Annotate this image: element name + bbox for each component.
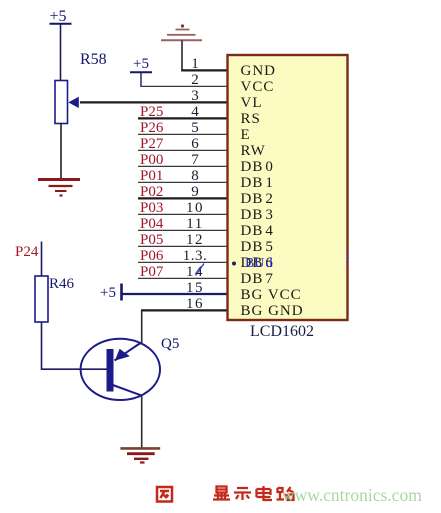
- pin 6 wire RW: [138, 149, 228, 151]
- svg-text:BUd: BUd: [245, 256, 272, 271]
- svg-text:P06: P06: [140, 248, 164, 264]
- pin 2 wire VCC: [140, 85, 227, 87]
- svg-text:P01: P01: [140, 168, 163, 184]
- pin label DB6 with blue overlapped text: [232, 255, 274, 271]
- pin 8 wire DB1: [138, 181, 228, 183]
- wire P24 to R46: [41, 242, 43, 277]
- pin 9 wire DB2: [138, 197, 228, 199]
- svg-text:R58: R58: [80, 51, 107, 68]
- svg-text:P07: P07: [140, 264, 164, 280]
- pin 11 wire DB4: [138, 229, 228, 231]
- pin 13 wire DB6: [138, 261, 228, 263]
- 示: [234, 488, 251, 500]
- svg-text:5: 5: [191, 120, 199, 136]
- svg-text:}: }: [345, 251, 350, 263]
- svg-text:+5: +5: [49, 8, 66, 25]
- svg-text:+5: +5: [133, 56, 149, 72]
- svg-text:VCC: VCC: [241, 79, 275, 95]
- pin 14 wire DB7: [138, 277, 228, 279]
- svg-text:P24: P24: [15, 244, 39, 260]
- svg-text:Q5: Q5: [161, 336, 179, 352]
- wire wiper to pin3 VL: [80, 101, 228, 103]
- svg-text:1: 1: [191, 56, 199, 72]
- ground (below Q5): [120, 448, 160, 462]
- power +5 (pin2 VCC): [130, 56, 152, 86]
- ground (top, inverted, above LCD pin1): [161, 24, 202, 40]
- 显: [217, 487, 227, 493]
- svg-text:11: 11: [186, 216, 203, 232]
- svg-text:BG GND: BG GND: [241, 303, 304, 319]
- transistor Q5: [81, 339, 160, 400]
- svg-text:P02: P02: [140, 184, 163, 200]
- svg-text:P25: P25: [140, 104, 163, 120]
- pin numbers 1-16: [183, 56, 208, 312]
- wire R58 to ground: [60, 124, 62, 180]
- svg-text:12: 12: [186, 232, 204, 248]
- svg-text:7: 7: [191, 152, 199, 168]
- resistor R58 (potentiometer body): [55, 81, 68, 124]
- caption 显示电路 (drawn strokes): [213, 486, 294, 500]
- 路: [277, 487, 294, 500]
- svg-text:10: 10: [186, 200, 204, 216]
- pin 7 wire DB0: [138, 165, 228, 167]
- svg-text:DB1: DB1: [241, 175, 274, 191]
- svg-text:P26: P26: [140, 120, 164, 136]
- svg-text:6: 6: [191, 136, 199, 152]
- pin 4 wire RS: [138, 117, 228, 119]
- svg-text:16: 16: [186, 296, 204, 312]
- svg-text:4: 4: [191, 104, 199, 120]
- wire pin16 down to Q5 emitter: [141, 310, 143, 343]
- svg-text:RS: RS: [241, 111, 261, 127]
- power +5 (top left): [49, 8, 71, 25]
- svg-text:R46: R46: [49, 276, 75, 292]
- svg-text:P05: P05: [140, 232, 163, 248]
- pin 5 wire E: [138, 133, 228, 135]
- IC LCD1602 box: [228, 55, 348, 320]
- caption 图 (drawn strokes): [157, 487, 172, 502]
- wire Q5 collector to ground: [141, 396, 143, 448]
- svg-text:LCD1602: LCD1602: [250, 323, 314, 340]
- svg-text:VL: VL: [241, 95, 263, 111]
- svg-text:2: 2: [191, 72, 199, 88]
- svg-text:P00: P00: [140, 152, 163, 168]
- wire top ground to pin1: [181, 40, 183, 70]
- svg-text:9: 9: [191, 184, 199, 200]
- svg-text:E: E: [241, 127, 251, 143]
- svg-text:DB4: DB4: [241, 223, 274, 239]
- wiper arrow into R58: [68, 97, 79, 108]
- svg-text:15: 15: [186, 280, 204, 296]
- 电: [257, 486, 273, 500]
- svg-text:P04: P04: [140, 216, 164, 232]
- pin 1 wire GND: [181, 69, 227, 71]
- wire R46 to Q5 base: [42, 322, 108, 369]
- svg-text:GND: GND: [241, 63, 277, 79]
- pin 16 wire BG GND: [141, 309, 228, 311]
- ground (below R58): [38, 180, 80, 196]
- svg-text:DB3: DB3: [241, 207, 274, 223]
- wire +5 to R58: [60, 24, 62, 81]
- svg-text:BG VCC: BG VCC: [241, 287, 302, 303]
- svg-text:DB5: DB5: [241, 239, 274, 255]
- pin 15 wire BG VCC: [122, 293, 228, 295]
- svg-text:DB7: DB7: [241, 271, 274, 287]
- svg-text:8: 8: [191, 168, 199, 184]
- blue artifact slash over pin14 number: [196, 264, 205, 276]
- svg-text:DB2: DB2: [241, 191, 274, 207]
- svg-text:3: 3: [191, 88, 199, 104]
- svg-text:www.cntronics.com: www.cntronics.com: [282, 485, 422, 505]
- svg-text:DB0: DB0: [241, 159, 274, 175]
- pin 12 wire DB5: [138, 245, 228, 247]
- svg-text:P27: P27: [140, 136, 164, 152]
- svg-text:RW: RW: [241, 143, 266, 159]
- pin 10 wire DB3: [138, 213, 228, 215]
- resistor R46: [35, 276, 48, 322]
- power +5 (pin15 BG VCC): [100, 284, 121, 302]
- svg-text:P03: P03: [140, 200, 163, 216]
- svg-text:+5: +5: [100, 285, 116, 301]
- svg-text:1.3.: 1.3.: [183, 248, 208, 264]
